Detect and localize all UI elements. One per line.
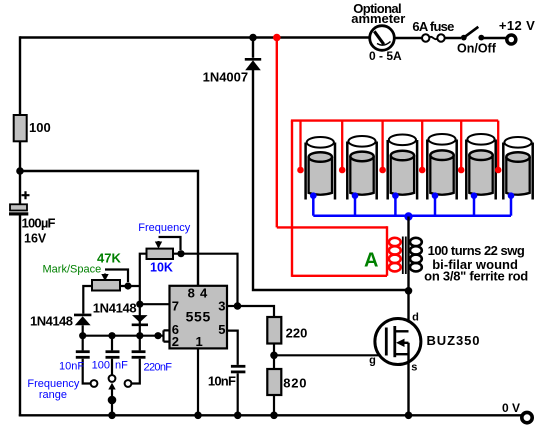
node pin3 junction [227, 302, 241, 310]
svg-text:7: 7 [172, 299, 179, 314]
label Frequency (10K pot) [138, 222, 190, 234]
switch S2 frequency range selector [91, 375, 132, 416]
label 100 nF [92, 360, 129, 372]
svg-text:10nF: 10nF [59, 361, 84, 373]
wire blue return bus [313, 214, 511, 217]
wire blue-bus to drain (black winding lead) [407, 217, 409, 333]
svg-text:+12 V: +12 V [499, 18, 535, 33]
wire red drop to coil T3 [379, 121, 386, 174]
node red +12V tap on bus [273, 34, 281, 42]
wire red drop to coil T2 [339, 121, 346, 174]
label transformer winding note [424, 243, 528, 283]
terminal 0V [502, 401, 532, 423]
svg-text:nF: nF [115, 360, 128, 372]
transformer red winding [389, 238, 401, 272]
wire red drop to coil T6 [495, 121, 502, 174]
wire ground bus 0V [19, 414, 522, 416]
svg-text:16V: 16V [24, 232, 47, 246]
wire pin7 stub [140, 303, 170, 305]
wire 10K to pin3 riser [173, 254, 238, 306]
potentiometer VR1 10K [147, 237, 181, 275]
coil T5 body [466, 134, 495, 200]
wire Vcc feed to 555 pins 8,4 [20, 171, 198, 286]
wire red drop to coil T1 [297, 121, 304, 174]
wire timing caps bus [79, 332, 161, 339]
wire gate [274, 354, 386, 356]
wire blue return from coil T4 [432, 192, 439, 215]
svg-text:100µF: 100µF [22, 216, 56, 231]
svg-text:Mark/Space: Mark/Space [43, 264, 102, 276]
svg-text:0 - 5A: 0 - 5A [369, 49, 402, 63]
transistor Q1 BUZ350 [369, 311, 421, 416]
wire red loop bottom edge [292, 275, 387, 277]
wire red +12V drop [276, 38, 278, 228]
svg-text:s: s [411, 362, 417, 374]
label Mark/Space [43, 264, 102, 276]
node blue bus centre tap [404, 212, 412, 220]
svg-text:range: range [39, 389, 67, 401]
node A (choke common) [364, 250, 378, 272]
coil T4 body [427, 134, 456, 200]
capacitor C2 10nF [76, 336, 91, 384]
svg-text:1N4007: 1N4007 [203, 70, 249, 85]
node top bus to diode junction [249, 34, 257, 42]
wire left rail lower [19, 216, 21, 417]
coil T3 body [388, 135, 417, 200]
svg-text:ammeter: ammeter [351, 11, 405, 26]
terminal +12V [499, 18, 535, 44]
wire pin1 to ground [197, 348, 199, 416]
wire top supply bus [20, 36, 370, 38]
wire pin3 to gate divider [238, 306, 275, 317]
svg-text:d: d [412, 311, 419, 323]
label 220nF [144, 362, 173, 374]
wire red riser to coil bus [291, 121, 293, 277]
svg-text:1N4148: 1N4148 [30, 314, 73, 329]
svg-text:1N4148: 1N4148 [93, 300, 137, 315]
wire blue return from coil T2 [352, 192, 359, 215]
diode D2 1N4148 left [74, 315, 91, 336]
svg-text:on 3/8" ferrite rod: on 3/8" ferrite rod [424, 268, 528, 283]
wire red drop to coil T5 [458, 121, 465, 174]
svg-text:3: 3 [218, 299, 225, 314]
svg-text:0 V: 0 V [502, 401, 520, 415]
svg-text:On/Off: On/Off [457, 42, 497, 56]
wire red loop top edge [277, 226, 387, 228]
node gate junction [270, 352, 278, 360]
transformer black winding [410, 238, 422, 272]
svg-text:1: 1 [196, 334, 203, 349]
fuse F1 6A [412, 19, 454, 42]
wire 820 to ground [273, 395, 275, 416]
label 1N4148 (upper) [93, 300, 137, 315]
coil T1 body [306, 137, 335, 200]
node pin7 junction [136, 301, 143, 308]
meter M1 optional ammeter [351, 1, 405, 63]
wire switch to +12V terminal [481, 37, 506, 39]
label 47K [97, 250, 121, 265]
svg-text:A: A [364, 250, 378, 272]
transformer bifilar choke core [403, 237, 406, 275]
wire 10K left to diode column [140, 254, 147, 335]
label 1N4148 (left) [30, 314, 73, 329]
node ground junctions [108, 412, 412, 420]
svg-text:820: 820 [283, 376, 306, 391]
wire 47K junction to column [120, 285, 140, 287]
resistor R2 220 [267, 317, 307, 344]
svg-text:220nF: 220nF [144, 362, 173, 374]
capacitor C5 10nF on pin5 [208, 331, 246, 416]
svg-text:100: 100 [29, 120, 51, 135]
svg-text:BUZ350: BUZ350 [427, 333, 480, 348]
label 10nF [59, 361, 84, 373]
wire 220 to 820 [273, 344, 275, 370]
svg-text:10K: 10K [150, 261, 173, 275]
wire 1N4007 anode to drain node [253, 70, 409, 290]
wire blue return from coil T3 [392, 192, 399, 215]
wire fuse to switch [445, 37, 461, 39]
svg-text:555: 555 [186, 308, 211, 324]
svg-text:4: 4 [200, 286, 208, 301]
svg-text:2: 2 [172, 334, 179, 349]
svg-text:10nF: 10nF [208, 373, 236, 388]
wire left rail mid [19, 141, 21, 204]
capacitor C 100uF 16V [9, 191, 56, 245]
capacitor C4 220nF [131, 336, 145, 384]
wire blue return from coil T1 [310, 192, 317, 215]
coil T2 body [347, 136, 376, 200]
label Frequency range [27, 378, 79, 401]
label BUZ350 [427, 333, 480, 348]
wire left rail upper [19, 36, 21, 115]
node drain junction [405, 287, 413, 295]
switch S1 On/Off [457, 27, 497, 56]
wire ammeter to fuse [394, 37, 421, 39]
wire red loop right edge [386, 226, 388, 276]
wire blue return from coil T6 [508, 192, 515, 215]
wire split to pins 6 and 2 [158, 330, 170, 341]
svg-text:g: g [369, 355, 376, 367]
svg-text:5: 5 [218, 322, 225, 337]
wire red coil-primaries bus [291, 119, 498, 121]
node 47K wiper junction [124, 282, 131, 289]
resistor R3 820 [267, 369, 306, 395]
resistor 100 [14, 115, 51, 141]
svg-text:8: 8 [188, 286, 195, 301]
potentiometer VR2 47K [92, 270, 128, 291]
svg-text:6A fuse: 6A fuse [412, 19, 454, 34]
svg-text:220: 220 [286, 326, 308, 341]
svg-text:100: 100 [92, 360, 110, 372]
node supply junction [16, 167, 24, 175]
wire 47K left to diode D2 [83, 286, 92, 314]
wire blue return from coil T5 [471, 192, 478, 215]
diode D1 1N4007 [203, 38, 262, 85]
capacitor C3 100nF [106, 336, 120, 375]
op-amp U1 555 timer [170, 286, 228, 349]
diode D3 1N4148 right [132, 315, 148, 325]
coil T6 body [503, 137, 532, 200]
node 10K wiper junction [177, 250, 184, 257]
svg-text:Frequency: Frequency [138, 222, 190, 234]
wire red drop to coil T4 [419, 121, 426, 174]
